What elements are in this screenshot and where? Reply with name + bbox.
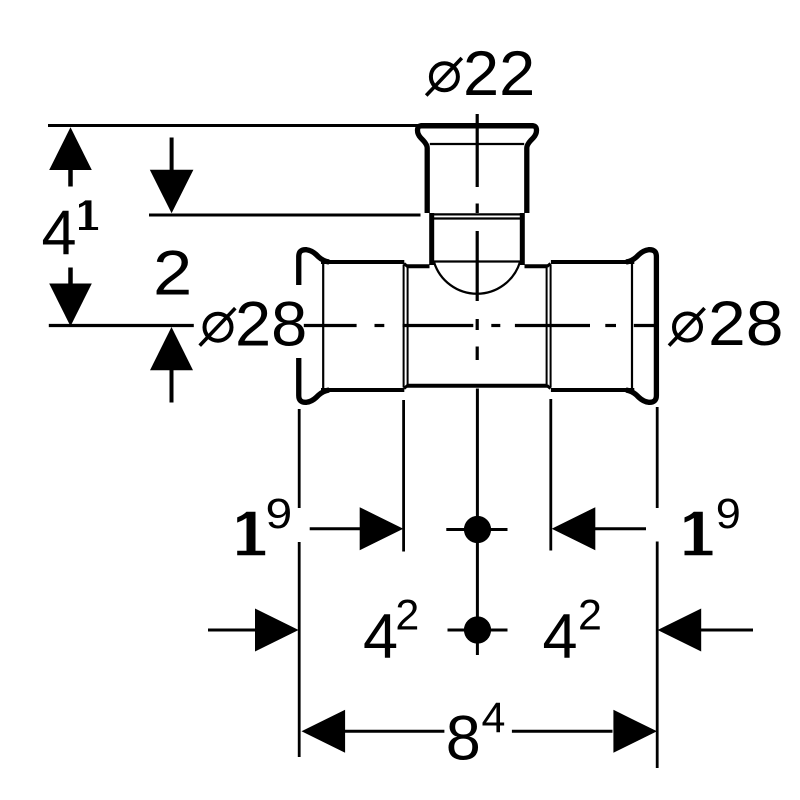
svg-text:9: 9 (716, 490, 741, 538)
svg-text:2: 2 (578, 591, 602, 639)
svg-text:4: 4 (42, 198, 77, 268)
svg-text:4: 4 (363, 602, 398, 672)
svg-text:22: 22 (463, 38, 535, 109)
svg-text:2: 2 (395, 591, 419, 639)
svg-text:28: 28 (708, 288, 784, 358)
svg-text:4: 4 (482, 694, 506, 742)
svg-text:4: 4 (543, 602, 578, 672)
svg-text:8: 8 (446, 703, 481, 773)
svg-text:9: 9 (266, 489, 293, 537)
svg-text:28: 28 (235, 288, 307, 359)
svg-text:2: 2 (153, 238, 192, 309)
